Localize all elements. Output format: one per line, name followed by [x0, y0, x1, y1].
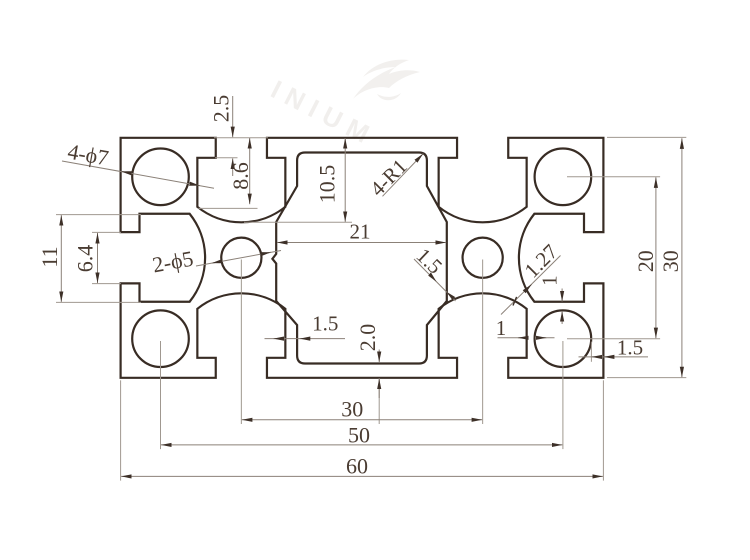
dimension lines [61, 96, 682, 476]
svg-text:10.5: 10.5 [315, 165, 340, 204]
svg-text:1.5: 1.5 [617, 336, 643, 360]
dim 1 horizontal line right [535, 337, 555, 339]
extension line mouth bottom for dim 6.4 [92, 283, 121, 285]
leader 4-phi7 left arrow [121, 171, 132, 173]
extension line right small hole center for dim 30 [482, 260, 484, 425]
dim 1.5 left arrow at cavity wall [300, 338, 310, 340]
extension line end-slot top wall for dim 11 [56, 214, 141, 216]
dim 1.5 right arrow at circle edge [592, 356, 602, 358]
leader 2-phi5 right arrow [261, 252, 271, 254]
dim 21 line [277, 242, 446, 244]
dim 50 line [161, 444, 562, 446]
dim 1 horizontal right arrow [537, 337, 547, 339]
corner hole top-left [132, 149, 189, 206]
extension line top edge across slot mouth [214, 137, 268, 139]
dim 1.27 arrow on leader [527, 284, 532, 289]
small hole right [463, 238, 503, 278]
svg-text:11: 11 [37, 246, 62, 267]
corner hole top-right [535, 149, 592, 206]
leader 2-phi5 line [196, 251, 281, 267]
dim 1.27 leader [501, 256, 561, 315]
dim 2.0 top arrow [378, 350, 380, 363]
dim 1.5 web line [414, 259, 456, 301]
svg-text:2.0: 2.0 [355, 324, 380, 352]
dim 2.5 top arrow [232, 96, 234, 137]
dim 30 right line [681, 138, 683, 377]
extension line bottom hole center for dim 20 [567, 338, 660, 340]
watermark swoosh logo [353, 60, 420, 101]
svg-text:2-ϕ5: 2-ϕ5 [150, 246, 195, 278]
dim 1 vertical bottom arrow [561, 311, 563, 324]
dim 30 bottom line [242, 419, 482, 421]
svg-text:20: 20 [633, 250, 658, 272]
dim 1 horizontal left arrow [518, 337, 526, 339]
svg-text:8.6: 8.6 [228, 162, 253, 190]
dim 1.5 web arrowheads [428, 272, 455, 300]
svg-text:30: 30 [658, 250, 683, 272]
dim 60 line [121, 475, 603, 477]
extension line end-slot bottom wall for dim 11 [56, 301, 141, 303]
extension line mouth top for dim 6.4 [92, 231, 121, 233]
dim 1.5 left line [265, 338, 346, 340]
extension line right outer edge for dim 60 [602, 380, 604, 480]
dim 20 line [655, 177, 657, 338]
dim 2.0 bottom arrow [378, 379, 380, 398]
central cavity [272, 153, 446, 364]
dim 1.5 right arrow at outer edge [604, 356, 614, 358]
extension line circle edge for dim 1.5 [590, 342, 592, 362]
extension line left small hole center for dim 30 [240, 260, 242, 425]
dim 1.5 left arrow at slot wall [273, 338, 283, 340]
extension line bottom corner for dim 30 right [607, 377, 686, 379]
dim 1.5 right line [579, 356, 649, 358]
leader 2-phi5 left arrow [212, 261, 222, 263]
dim 11 line [60, 215, 62, 302]
extension line slot arc bottom for dim 10.5 [244, 221, 352, 223]
small hole left [221, 238, 261, 278]
svg-text:50: 50 [348, 423, 370, 448]
extension line top corner for dim 30 right [607, 136, 686, 138]
svg-text:INIUM: INIUM [266, 74, 381, 152]
extension line left outer edge for dim 60 [120, 380, 122, 480]
svg-text:60: 60 [346, 453, 368, 478]
profile outline [121, 138, 604, 378]
extension line left hole center for dim 50 [160, 341, 162, 449]
dim 8.6 line [249, 138, 251, 204]
dim 2.5 bottom arrow [232, 158, 234, 176]
dim 1.27 tick mark [513, 297, 517, 306]
svg-text:1: 1 [538, 275, 562, 286]
extension line slot shoulder for dim 8.6 [199, 207, 258, 209]
extension line right hole center for dim 50 [562, 341, 564, 449]
svg-text:4-ϕ7: 4-ϕ7 [66, 139, 111, 171]
svg-text:21: 21 [350, 220, 371, 244]
svg-text:1.5: 1.5 [412, 243, 448, 278]
leader 4-phi7 line [62, 161, 214, 188]
dim 6.4 line [97, 233, 99, 283]
svg-text:30: 30 [341, 397, 363, 422]
extension line for dim 2.0 [378, 378, 380, 424]
svg-text:1: 1 [496, 316, 507, 340]
extension line lip underside for dim 2.5 [215, 157, 238, 159]
dim 1 vertical top arrow [561, 289, 563, 302]
corner hole bottom-right [535, 310, 592, 367]
dim 10.5 line [344, 138, 346, 222]
leader 4-phi7 right arrow [190, 184, 200, 186]
leader 4-R1 [383, 154, 424, 197]
svg-text:6.4: 6.4 [73, 245, 98, 273]
svg-text:2.5: 2.5 [209, 95, 234, 123]
svg-text:4-R1: 4-R1 [365, 154, 412, 201]
corner hole bottom-left [132, 310, 189, 367]
svg-text:1.5: 1.5 [312, 312, 338, 336]
extension line top hole center for dim 20 [567, 176, 660, 178]
dim 1 horizontal line left [498, 337, 527, 339]
